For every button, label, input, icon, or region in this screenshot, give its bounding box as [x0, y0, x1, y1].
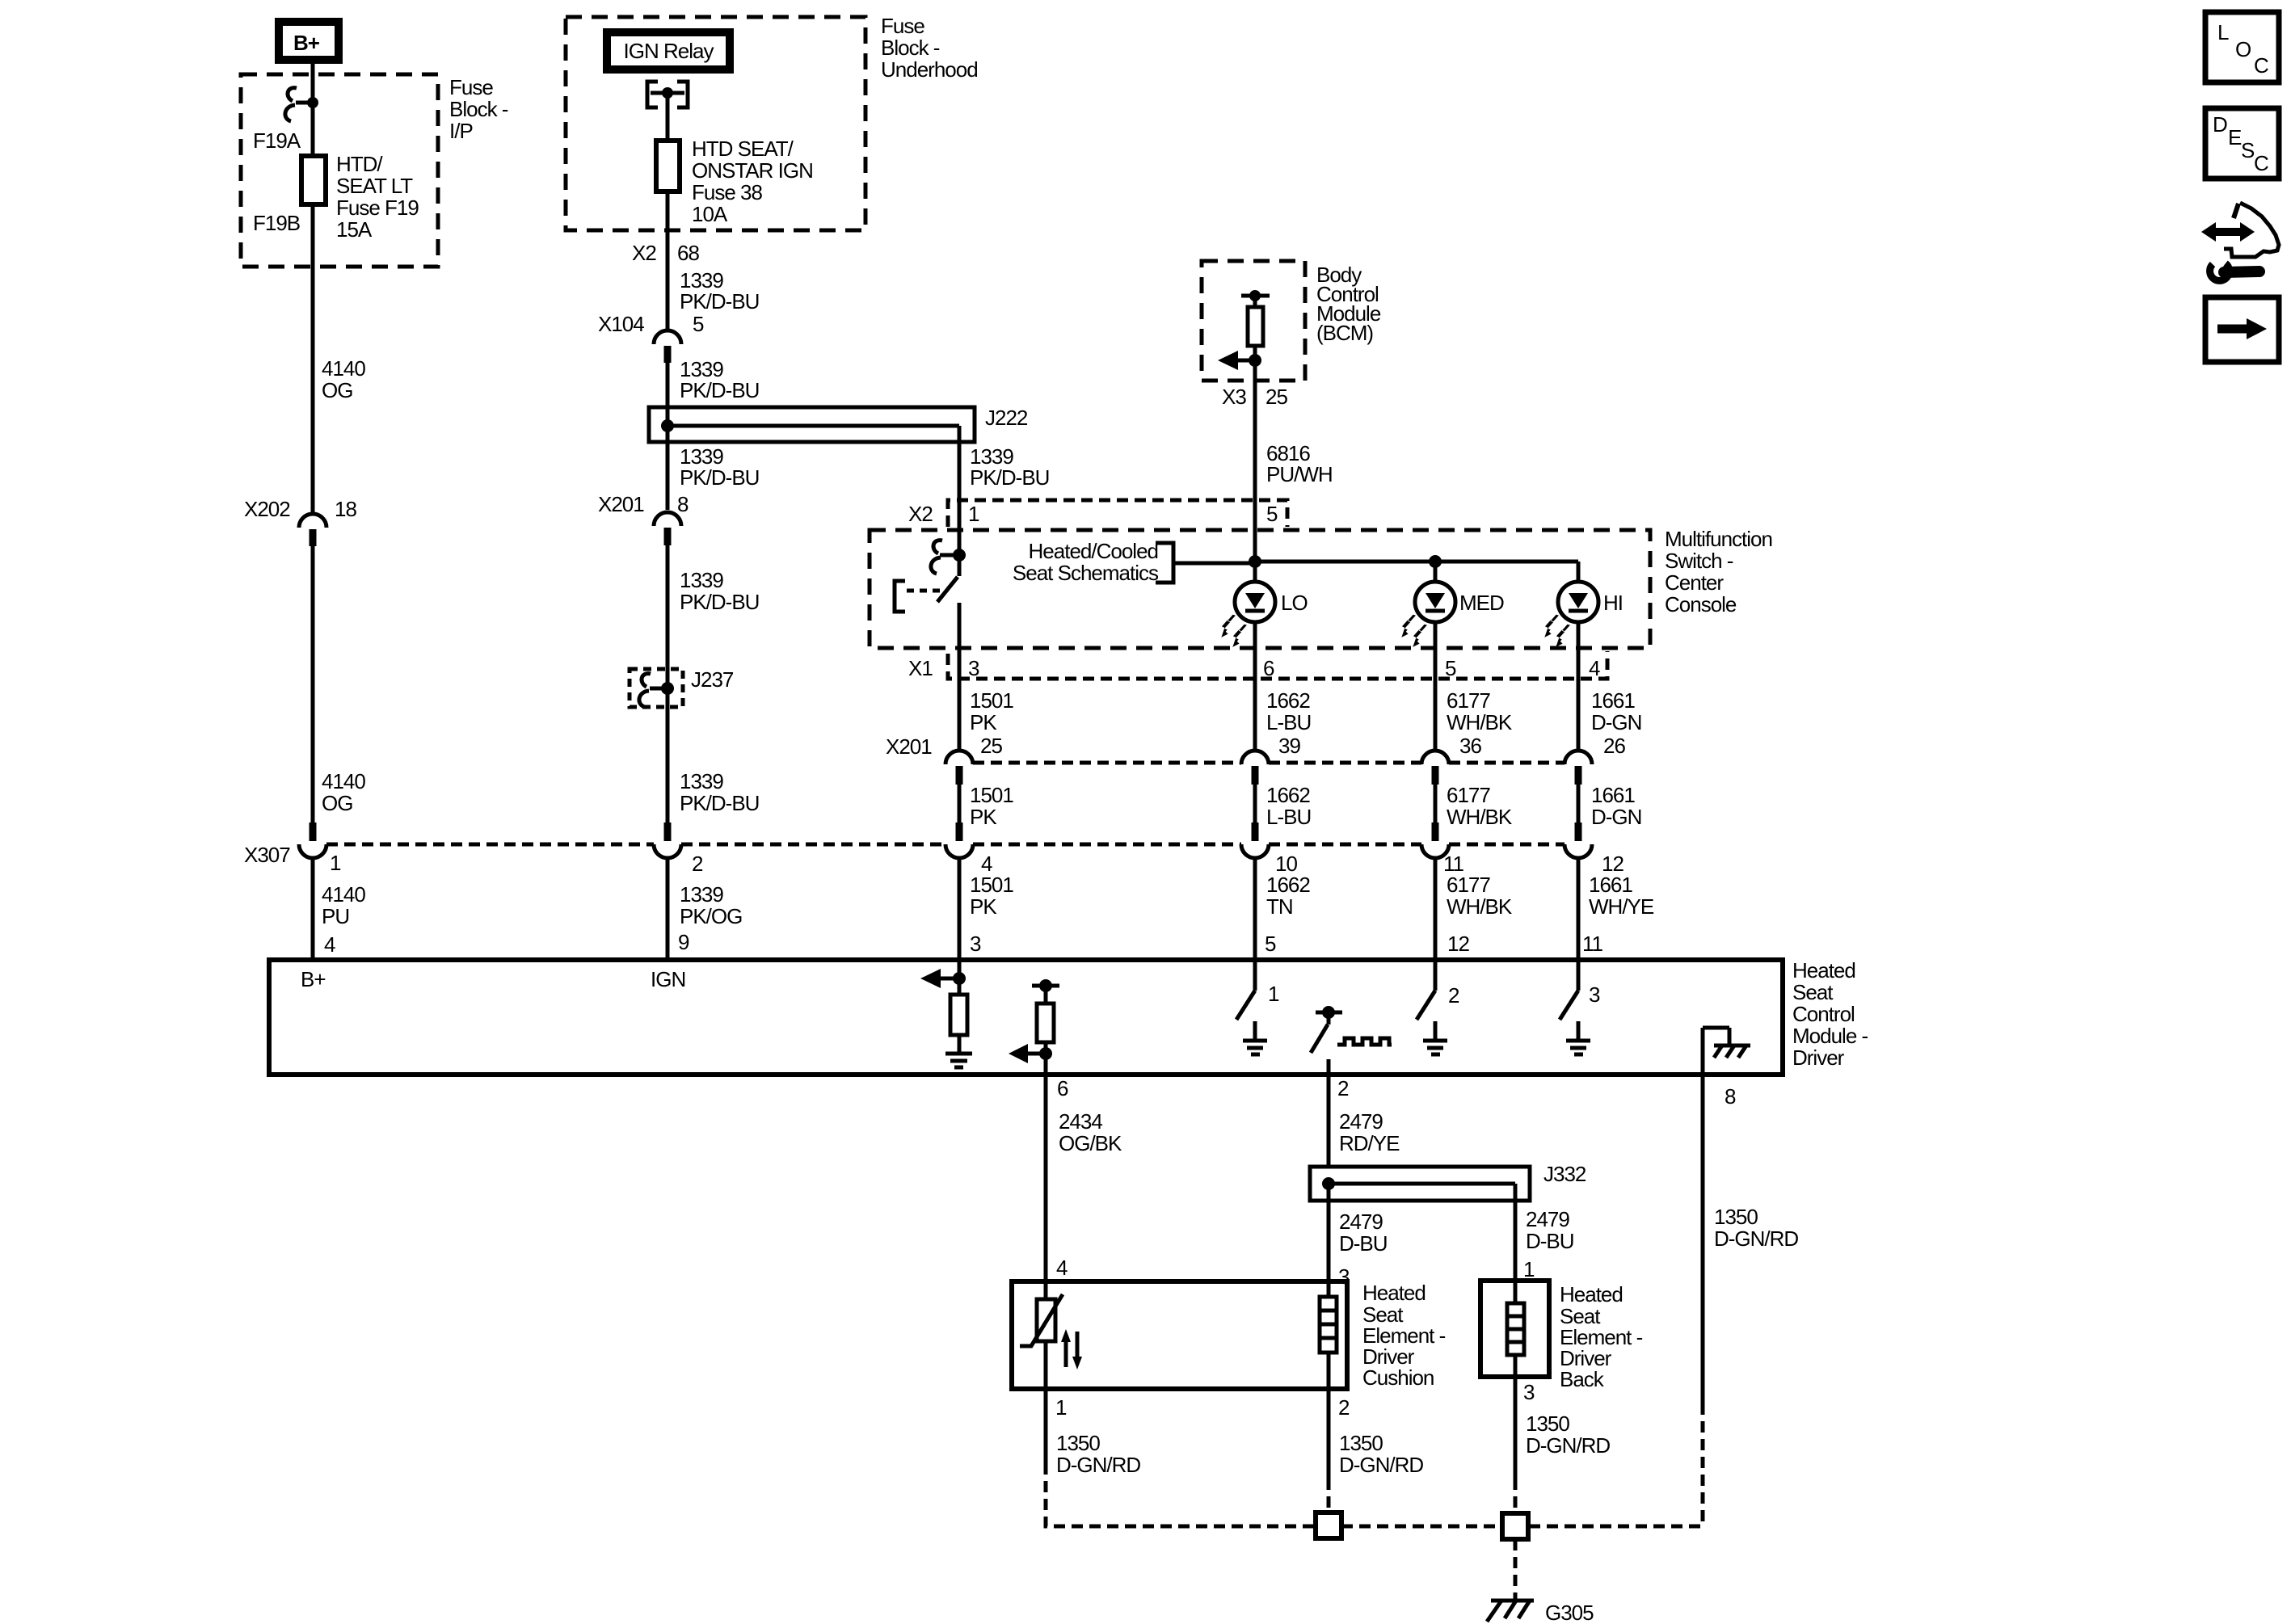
svg-text:C: C [2254, 151, 2268, 175]
heater element driver cushion [1320, 1281, 1337, 1389]
svg-text:Underhood: Underhood [881, 57, 978, 82]
wire module pin 6 to cushion element pin 4 [1044, 1075, 1048, 1299]
svg-text:18: 18 [335, 497, 356, 521]
svg-text:8: 8 [677, 492, 689, 516]
svg-text:X2: X2 [632, 241, 656, 265]
svg-text:HTD SEAT/: HTD SEAT/ [692, 137, 794, 161]
wire back pin 3 down [1514, 1355, 1518, 1513]
module internal: chassis ground to pin 8 [1703, 1028, 1750, 1075]
wire X202 to X307 [311, 546, 315, 823]
module internal: sense resistor to ground on pin 3 [920, 960, 972, 1067]
svg-text:2: 2 [692, 852, 703, 876]
svg-text:Back: Back [1560, 1367, 1605, 1391]
module internal: PWM output to pin 2 [1311, 1006, 1392, 1075]
svg-text:1: 1 [330, 851, 341, 875]
svg-text:TN: TN [1266, 894, 1293, 919]
svg-text:F19A: F19A [253, 128, 301, 153]
svg-text:5: 5 [1445, 656, 1456, 680]
label 6816 PU/WH [1266, 441, 1333, 486]
svg-text:Heated: Heated [1362, 1281, 1426, 1305]
svg-text:6177: 6177 [1447, 688, 1490, 713]
label 2479 D-BU left [1339, 1210, 1388, 1256]
svg-text:RD/YE: RD/YE [1339, 1131, 1400, 1155]
svg-text:Block -: Block - [881, 36, 940, 60]
LED bus wire [1249, 555, 1578, 568]
splice J222 [649, 406, 1028, 442]
svg-text:O: O [2235, 37, 2251, 61]
label 1350 D-GN/RD [1339, 1431, 1423, 1477]
svg-text:Fuse 38: Fuse 38 [692, 180, 762, 204]
label 4140 OG [322, 356, 365, 402]
svg-text:D-GN: D-GN [1591, 805, 1641, 829]
splice J237 [630, 667, 734, 707]
svg-text:Fuse F19: Fuse F19 [336, 196, 419, 220]
svg-text:J222: J222 [985, 406, 1028, 430]
svg-text:PK/OG: PK/OG [680, 904, 742, 928]
wire X307 to module pin 4 [311, 857, 315, 960]
B+ power symbol box [279, 22, 339, 60]
connector row X201 dashed [886, 734, 1625, 763]
svg-text:PK: PK [970, 894, 997, 919]
svg-text:WH/BK: WH/BK [1447, 894, 1513, 919]
label 1350 D-GN/RD [1056, 1431, 1140, 1477]
wire BCM to X2 pin 5 [1253, 381, 1257, 562]
label 2434 OG/BK [1059, 1109, 1122, 1155]
LED MED [1401, 562, 1504, 751]
svg-text:X104: X104 [598, 312, 644, 336]
svg-text:L: L [2217, 20, 2229, 44]
svg-text:OG: OG [322, 378, 352, 402]
svg-text:PK: PK [970, 710, 997, 734]
wire B+ to fuse F19 [311, 64, 315, 156]
svg-text:E: E [2228, 125, 2242, 149]
label 1339 PK/D-BU [680, 357, 759, 402]
svg-text:2479: 2479 [1339, 1109, 1383, 1134]
svg-text:1: 1 [1055, 1395, 1067, 1420]
svg-text:D-BU: D-BU [1526, 1229, 1574, 1253]
Multifunction Switch dashed box [870, 530, 1650, 648]
svg-text:X1: X1 [908, 656, 933, 680]
svg-text:1661: 1661 [1591, 688, 1635, 713]
X201 row connectors on wires [945, 751, 1592, 785]
label 1339 PK/D-BU right below J222 [970, 444, 1049, 490]
module internal: switch 2 to ground [1417, 960, 1459, 1054]
label 1339 PK/D-BU [680, 268, 759, 313]
label Heated Seat Element - Driver Back [1560, 1282, 1643, 1391]
bracket to LED bus [1156, 543, 1255, 583]
svg-text:4: 4 [324, 932, 335, 957]
switch detent bracket [895, 581, 947, 612]
svg-text:J237: J237 [691, 667, 734, 692]
svg-text:IGN: IGN [651, 967, 685, 991]
svg-text:4140: 4140 [322, 356, 365, 381]
module internal: driver resistor to pin 6 [1009, 979, 1059, 1075]
svg-text:5: 5 [1265, 932, 1276, 956]
svg-text:Seat Schematics: Seat Schematics [1013, 561, 1159, 585]
wire labels above X201 row [970, 688, 1641, 734]
label 1339 PK/D-BU [680, 568, 759, 614]
svg-text:1350: 1350 [1339, 1431, 1383, 1455]
LED HI [1544, 562, 1623, 751]
svg-text:1661: 1661 [1589, 873, 1632, 897]
svg-text:4: 4 [1056, 1256, 1068, 1280]
svg-text:4: 4 [1589, 656, 1600, 680]
svg-text:6177: 6177 [1447, 783, 1490, 807]
svg-text:PU: PU [322, 904, 349, 928]
label Heated Seat Control Module - Driver [1792, 958, 1868, 1070]
svg-text:1350: 1350 [1056, 1431, 1100, 1455]
svg-text:68: 68 [677, 241, 699, 265]
svg-text:2: 2 [1448, 983, 1459, 1008]
Fuse Block - Underhood dashed box [566, 17, 865, 230]
svg-text:1662: 1662 [1266, 688, 1310, 713]
svg-text:1350: 1350 [1526, 1412, 1569, 1436]
svg-text:D: D [2213, 112, 2227, 137]
svg-text:12: 12 [1447, 932, 1469, 956]
connector X307 pin 1 [244, 823, 341, 875]
svg-text:1662: 1662 [1266, 783, 1310, 807]
ground bus dashed [1341, 1525, 1703, 1529]
svg-text:26: 26 [1603, 734, 1625, 758]
fuse element hook at F19A [285, 88, 318, 121]
svg-text:X201: X201 [598, 492, 644, 516]
splice box on cushion ground [1316, 1513, 1341, 1538]
svg-text:1: 1 [1523, 1257, 1535, 1281]
svg-text:D-GN/RD: D-GN/RD [1526, 1433, 1610, 1458]
svg-text:Seat: Seat [1792, 980, 1834, 1004]
LED LO [1221, 562, 1308, 751]
connector row X307 dashed [326, 843, 1565, 847]
svg-text:X3: X3 [1222, 385, 1246, 409]
svg-text:D-GN/RD: D-GN/RD [1339, 1453, 1423, 1477]
svg-text:5: 5 [693, 312, 704, 336]
svg-text:25: 25 [980, 734, 1002, 758]
IGN Relay box [607, 32, 730, 69]
svg-text:2: 2 [1337, 1076, 1349, 1100]
svg-text:Block -: Block - [449, 97, 508, 121]
svg-text:PK/D-BU: PK/D-BU [680, 378, 759, 402]
svg-text:3: 3 [1589, 982, 1600, 1007]
svg-text:L-BU: L-BU [1266, 805, 1311, 829]
svg-text:Console: Console [1665, 592, 1737, 616]
icon arrow box [2205, 297, 2279, 362]
svg-text:Heated: Heated [1792, 958, 1855, 982]
wire labels above X307 row [970, 783, 1641, 829]
Body Control Module (BCM) dashed box [1202, 261, 1305, 381]
BCM internal driver [1218, 290, 1270, 381]
svg-text:I/P: I/P [449, 119, 473, 143]
svg-text:D-GN/RD: D-GN/RD [1714, 1226, 1798, 1251]
svg-text:WH/BK: WH/BK [1447, 710, 1513, 734]
label X3 25 [1222, 385, 1287, 409]
svg-text:X201: X201 [886, 734, 932, 759]
svg-text:MED: MED [1459, 591, 1504, 615]
svg-text:3: 3 [1523, 1380, 1535, 1404]
svg-text:D-GN: D-GN [1591, 710, 1641, 734]
Heated Seat Control Module - Driver box [269, 960, 1783, 1075]
svg-text:39: 39 [1278, 734, 1300, 758]
svg-text:(BCM): (BCM) [1316, 321, 1373, 345]
svg-text:D-BU: D-BU [1339, 1231, 1388, 1256]
wire fuse 38 down [666, 191, 670, 330]
fuse HTD/SEAT LT F19 15A rect [301, 156, 326, 204]
svg-text:WH/YE: WH/YE [1589, 894, 1654, 919]
label 1350 D-GN/RD [1526, 1412, 1610, 1458]
Heated Seat Element - Driver Cushion box [1012, 1281, 1347, 1389]
wire J222 to switch [958, 426, 962, 576]
svg-text:1339: 1339 [680, 568, 723, 592]
label Fuse Block - Underhood [881, 14, 978, 82]
svg-text:PK/D-BU: PK/D-BU [680, 590, 759, 614]
ground G305 [1487, 1601, 1594, 1624]
svg-text:Module -: Module - [1792, 1024, 1868, 1048]
label Fuse Block - I/P [449, 75, 508, 143]
svg-text:1: 1 [968, 502, 979, 526]
svg-text:Heated: Heated [1560, 1282, 1623, 1306]
wire module pin 8 down [1701, 1075, 1705, 1526]
svg-text:15A: 15A [336, 217, 373, 242]
module pin labels [970, 932, 1603, 956]
svg-text:WH/BK: WH/BK [1447, 805, 1513, 829]
label Heated/Cooled Seat Schematics [1013, 539, 1159, 585]
svg-text:Fuse: Fuse [449, 75, 493, 99]
svg-text:PK/D-BU: PK/D-BU [680, 791, 759, 815]
svg-text:OG/BK: OG/BK [1059, 1131, 1122, 1155]
connector row X2 dashed [908, 500, 1287, 527]
svg-text:36: 36 [1459, 734, 1481, 758]
label 1339 PK/OG [680, 882, 742, 928]
svg-text:J332: J332 [1543, 1162, 1586, 1186]
wire J332 left branch to element pin 3 [1327, 1184, 1331, 1297]
wire X201 to J237 [666, 545, 670, 823]
svg-text:PK/D-BU: PK/D-BU [680, 465, 759, 490]
svg-text:4140: 4140 [322, 769, 365, 793]
label 1350 D-GN/RD right [1714, 1205, 1798, 1251]
svg-text:PK/D-BU: PK/D-BU [680, 289, 759, 313]
label 4140 OG [322, 769, 365, 815]
wires between X201 and X307 rows [959, 785, 1578, 823]
label BCM [1316, 263, 1381, 345]
label HTD SEAT/ONSTAR IGN Fuse 38 10A [692, 137, 813, 226]
svg-text:8: 8 [1725, 1084, 1736, 1109]
relay contact brackets [647, 82, 688, 107]
label fuse F19 [336, 152, 419, 242]
fuse 38 rect [656, 141, 680, 191]
svg-text:ONSTAR IGN: ONSTAR IGN [692, 158, 813, 183]
wire splice to G305 [1514, 1539, 1518, 1599]
svg-text:HI: HI [1603, 591, 1623, 615]
svg-text:PK/D-BU: PK/D-BU [970, 465, 1049, 490]
svg-text:5: 5 [1266, 502, 1278, 526]
wire relay to fuse 38 [666, 93, 670, 141]
svg-text:3: 3 [970, 932, 981, 956]
wire J332 right branch to back element pin 1 [1514, 1184, 1518, 1303]
label Multifunction Switch - Center Console [1665, 527, 1772, 616]
connector X307 pin 2 [654, 823, 703, 876]
wire switch to X1 pin 3 [958, 603, 962, 751]
connector X104 pin 5 [598, 312, 704, 363]
connector X201 pin 8 [598, 492, 689, 545]
svg-text:PK: PK [970, 805, 997, 829]
svg-text:C: C [2254, 53, 2268, 78]
svg-text:S: S [2241, 138, 2255, 162]
svg-text:9: 9 [678, 930, 689, 954]
wire cushion pin 2 down [1327, 1389, 1331, 1513]
label 4140 PU [322, 882, 365, 928]
svg-text:F19B: F19B [253, 211, 300, 235]
svg-text:6: 6 [1263, 656, 1274, 680]
svg-text:2479: 2479 [1526, 1207, 1569, 1231]
splice box on back ground [1502, 1513, 1528, 1539]
label 2479 RD/YE [1339, 1109, 1400, 1155]
svg-text:2479: 2479 [1339, 1210, 1383, 1234]
label 1339 PK/D-BU [680, 769, 759, 815]
svg-text:Cushion: Cushion [1362, 1365, 1434, 1390]
label X2 68 [632, 241, 699, 265]
module internal: switch 1 to ground [1236, 960, 1279, 1054]
heated seat switch [931, 541, 966, 602]
svg-text:25: 25 [1266, 385, 1287, 409]
heater element driver back [1507, 1303, 1524, 1355]
svg-text:4140: 4140 [322, 882, 365, 907]
svg-text:Driver: Driver [1792, 1046, 1845, 1070]
Fuse Block - I/P dashed box [241, 74, 438, 267]
icon vehicle with arrow and wrench [2201, 203, 2279, 280]
svg-text:HTD/: HTD/ [336, 152, 383, 176]
connector row X1 dashed [908, 651, 1607, 680]
label Heated Seat Element - Driver Cushion [1362, 1281, 1446, 1390]
svg-text:X202: X202 [244, 497, 290, 521]
svg-text:6: 6 [1057, 1076, 1068, 1100]
svg-text:X2: X2 [908, 502, 933, 526]
svg-text:1350: 1350 [1714, 1205, 1758, 1229]
svg-text:Heated/Cooled: Heated/Cooled [1029, 539, 1158, 563]
svg-text:Control: Control [1792, 1002, 1855, 1026]
label 2479 D-BU right [1526, 1207, 1574, 1253]
thermistor sensor [1020, 1294, 1082, 1369]
svg-text:1501: 1501 [970, 688, 1013, 713]
wire F19B down [311, 204, 315, 514]
svg-text:Fuse: Fuse [881, 14, 924, 38]
wire cushion pin 1 down [1046, 1341, 1316, 1526]
wire labels above module [970, 873, 1654, 919]
svg-text:L-BU: L-BU [1266, 710, 1311, 734]
svg-text:1501: 1501 [970, 783, 1013, 807]
svg-text:6177: 6177 [1447, 873, 1490, 897]
wire module pin 2 to J332 [1327, 1075, 1331, 1167]
svg-text:D-GN/RD: D-GN/RD [1056, 1453, 1140, 1477]
svg-text:Switch -: Switch - [1665, 549, 1733, 573]
svg-text:11: 11 [1582, 932, 1603, 956]
label 1339 PK/D-BU left below J222 [680, 444, 759, 490]
svg-text:PU/WH: PU/WH [1266, 462, 1333, 486]
svg-text:1: 1 [1268, 982, 1279, 1006]
svg-text:1339: 1339 [680, 769, 723, 793]
svg-text:Center: Center [1665, 570, 1724, 595]
svg-text:B+: B+ [301, 967, 326, 991]
svg-text:SEAT LT: SEAT LT [336, 174, 413, 198]
wire X104 to J222 [666, 363, 670, 510]
svg-text:3: 3 [968, 656, 979, 680]
svg-text:OG: OG [322, 791, 352, 815]
connector X202 pin 18 [244, 497, 356, 546]
svg-text:IGN Relay: IGN Relay [624, 39, 714, 63]
svg-text:Multifunction: Multifunction [1665, 527, 1772, 551]
wires X307 row to module [959, 857, 1578, 960]
svg-text:2434: 2434 [1059, 1109, 1102, 1134]
svg-text:10A: 10A [692, 202, 728, 226]
svg-text:1662: 1662 [1266, 873, 1310, 897]
splice J332 [1310, 1162, 1586, 1201]
svg-text:X307: X307 [244, 843, 290, 867]
svg-text:1501: 1501 [970, 873, 1013, 897]
svg-text:G305: G305 [1545, 1601, 1594, 1624]
svg-text:1661: 1661 [1591, 783, 1635, 807]
X307 row connectors on wires C D E F [945, 823, 1623, 876]
svg-text:B+: B+ [293, 31, 320, 55]
icon DESC box [2205, 108, 2279, 179]
icon LOC box [2205, 12, 2279, 82]
Heated Seat Element - Driver Back box [1480, 1281, 1549, 1377]
svg-text:1339: 1339 [680, 882, 723, 907]
svg-text:2: 2 [1338, 1395, 1350, 1420]
module internal: switch 3 to ground [1560, 960, 1600, 1054]
svg-text:LO: LO [1281, 591, 1308, 615]
wire X307 to module pin 9 [666, 857, 670, 960]
